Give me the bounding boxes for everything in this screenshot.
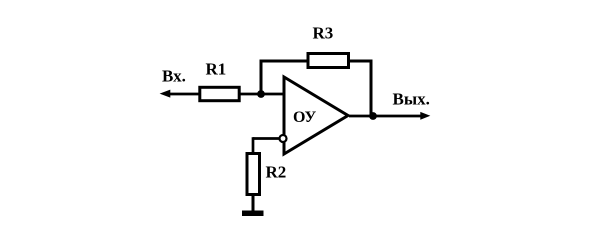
resistor R1 bbox=[200, 87, 239, 100]
svg-text:R1: R1 bbox=[206, 60, 227, 79]
wire: feedback left vertical + top run to R3 bbox=[261, 61, 308, 94]
wire: input line from arrow to R1 bbox=[167, 93, 199, 96]
wire: R3 right to output node vertical bbox=[349, 61, 372, 116]
svg-text:ОУ: ОУ bbox=[293, 109, 317, 126]
inverting input inversion circle bbox=[280, 135, 287, 142]
output arrow (Вых.) pointing right bbox=[420, 112, 430, 120]
wire: down to R2 bbox=[252, 137, 255, 154]
resistor R3 bbox=[308, 54, 349, 68]
wire: output line from op-amp bbox=[349, 115, 422, 118]
node A: junction dot at R1/feedback bbox=[257, 90, 265, 98]
svg-text:Вых.: Вых. bbox=[393, 90, 430, 109]
ground bbox=[242, 210, 264, 216]
svg-text:Вх.: Вх. bbox=[162, 67, 186, 86]
svg-text:R3: R3 bbox=[313, 24, 334, 43]
wire: R1 to op-amp non-inverting input bbox=[240, 93, 284, 96]
svg-text:R2: R2 bbox=[266, 163, 287, 182]
node B: output junction dot bbox=[369, 112, 377, 120]
op-amp U1 triangle bbox=[284, 77, 348, 154]
input arrow (Вх.) pointing left bbox=[160, 90, 171, 98]
resistor R2 bbox=[247, 154, 260, 195]
wire: inverting input horizontal bbox=[253, 137, 283, 140]
wire: R2 to ground bbox=[252, 195, 255, 213]
